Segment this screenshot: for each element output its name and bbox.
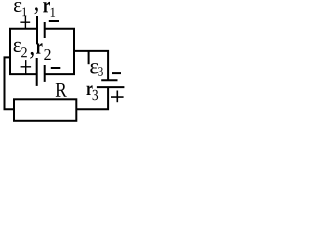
label r3 subscript 3 — [93, 90, 98, 100]
label epsilon1 — [14, 2, 21, 12]
label r1 bold — [43, 2, 50, 13]
label epsilon1 subscript 1 — [22, 7, 26, 16]
battery E3 short negative plate — [101, 79, 117, 81]
label epsilon3 — [90, 63, 98, 73]
plus sign of battery E3 — [111, 96, 124, 98]
resistor R box — [14, 99, 76, 121]
wire: battery3 bottom lead down and left to resistor — [76, 87, 108, 109]
label R — [56, 83, 67, 97]
battery E2 long positive plate — [36, 58, 38, 86]
wire: battery1 left lead, inner-left rail, battery2 left lead — [10, 29, 37, 74]
battery E1 long positive plate — [36, 16, 38, 44]
wire: branch3 horizontal, down to battery3 top plate — [74, 51, 108, 80]
label epsilon2 — [14, 42, 21, 52]
minus sign of battery E2 — [51, 67, 61, 69]
label r2 subscript 2 — [44, 49, 50, 60]
battery E3 long positive plate — [97, 86, 125, 88]
wire: short stub hanging at node B — [88, 51, 90, 64]
plus sign of battery E2 — [21, 66, 32, 68]
battery E2 short negative plate — [44, 65, 46, 82]
minus sign of battery E3 — [112, 72, 121, 74]
label epsilon2 subscript 2 — [21, 47, 27, 57]
label r3 bold — [86, 85, 92, 95]
label r1 subscript 1 — [51, 8, 55, 17]
label epsilon3 subscript 3 — [98, 67, 103, 75]
label r2 bold — [36, 43, 43, 53]
minus sign of battery E1 — [49, 20, 59, 22]
wire: node jog, outer-left rail, bottom-left lead to resistor — [5, 57, 15, 109]
wire: battery1 right lead, inner-right rail, battery2 right lead — [45, 29, 74, 74]
label comma 1 — [35, 7, 38, 14]
plus sign of battery E1 — [20, 21, 30, 23]
label comma 2 — [30, 52, 34, 59]
battery E1 short negative plate — [44, 22, 46, 38]
